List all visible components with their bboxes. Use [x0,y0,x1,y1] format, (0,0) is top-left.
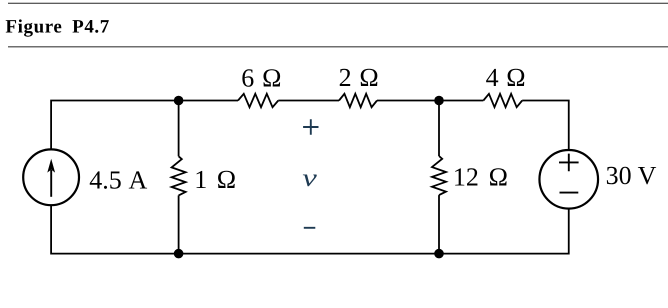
svg-text:Figure P4.7: Figure P4.7 [5,16,109,37]
wire: bottom node B to node A [179,253,439,255]
voltage source plus sign [559,154,579,172]
current source arrow [50,170,52,197]
wire: node B to 4-ohm [439,100,483,102]
svg-text:2 Ω: 2 Ω [339,63,379,92]
resistor 2 ohm [339,94,377,107]
wire: node B down to 12-ohm resistor [438,101,440,157]
resistor 4 ohm [483,94,522,107]
junction dot node A top [174,96,184,106]
top rule [8,3,668,4]
voltage source minus sign [560,192,579,194]
svg-text:4 Ω: 4 Ω [486,63,526,92]
wire: 1-ohm resistor to bottom node A [178,195,180,253]
svg-text:6 Ω: 6 Ω [241,64,281,93]
svg-text:12 Ω: 12 Ω [453,162,508,191]
wire: 12-ohm resistor to bottom node B [438,195,440,254]
svg-text:4.5 A: 4.5 A [89,165,147,194]
junction dot node B bottom [434,249,444,259]
svg-text:30 V: 30 V [606,161,657,190]
wire: voltage source bottom to bottom-right corner to node B bottom [439,208,569,253]
wire: 6-ohm to 2-ohm [278,100,339,102]
wire: node A down to 1-ohm resistor [178,101,180,157]
wire: node A to 6-ohm resistor [179,100,238,102]
rule under title [8,46,668,47]
wire: 4-ohm to top-right corner down to voltage source [522,101,569,151]
label v plus polarity [303,119,318,134]
resistor 12 ohm (vertical) [432,156,446,195]
current source I1 circle [23,149,79,205]
svg-text:1 Ω: 1 Ω [194,165,236,194]
label v minus polarity [304,227,316,229]
junction dot node B top [434,96,444,106]
junction dot node A bottom [174,249,184,259]
wire: 2-ohm to node B [377,100,439,102]
resistor 6 ohm [238,94,278,107]
wire: top-left corner (current source top to node A) [51,101,179,150]
voltage source U1 circle [539,150,598,209]
wire: bottom node A to bottom-left corner up to current source [51,205,179,254]
svg-text:v: v [302,165,318,192]
resistor 1 ohm (vertical) [172,156,186,195]
